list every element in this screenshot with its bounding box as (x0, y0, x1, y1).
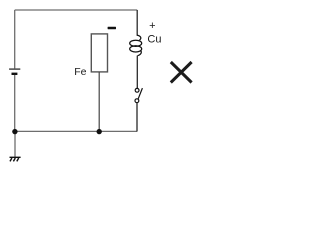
wire right middle (coil to switch) (136, 56, 138, 89)
switch S lower contact (135, 99, 139, 103)
switch S upper contact (135, 88, 139, 92)
iron bar electrode Fe (rectangle) (91, 34, 107, 72)
X marker (cross symbol) (171, 62, 192, 83)
wire ground stem (14, 131, 16, 156)
polarity label minus (108, 27, 116, 29)
svg-text:Cu: Cu (147, 33, 161, 45)
ground (earth symbol) (10, 157, 21, 161)
wire top (battery + to coil) (15, 9, 138, 11)
svg-text:Fe: Fe (74, 66, 86, 78)
battery E (thick short negative plate) (12, 73, 18, 75)
switch S blade (open) (138, 88, 142, 99)
battery E (thin long positive plate) (9, 68, 20, 70)
wire right upper (top wire to coil) (136, 10, 138, 36)
node left junction dot (12, 129, 17, 134)
wire right lower (switch to bottom wire) (136, 103, 138, 132)
inductor coil Cu (130, 35, 142, 56)
wire left upper (top wire to battery) (14, 10, 16, 68)
wire left lower (battery to bottom wire) (14, 75, 16, 131)
wire bottom (left node to switch branch) (15, 130, 138, 132)
svg-text:+: + (149, 20, 155, 32)
node middle junction dot (97, 129, 102, 134)
wire Fe stem (electrode to bottom wire) (98, 72, 100, 131)
